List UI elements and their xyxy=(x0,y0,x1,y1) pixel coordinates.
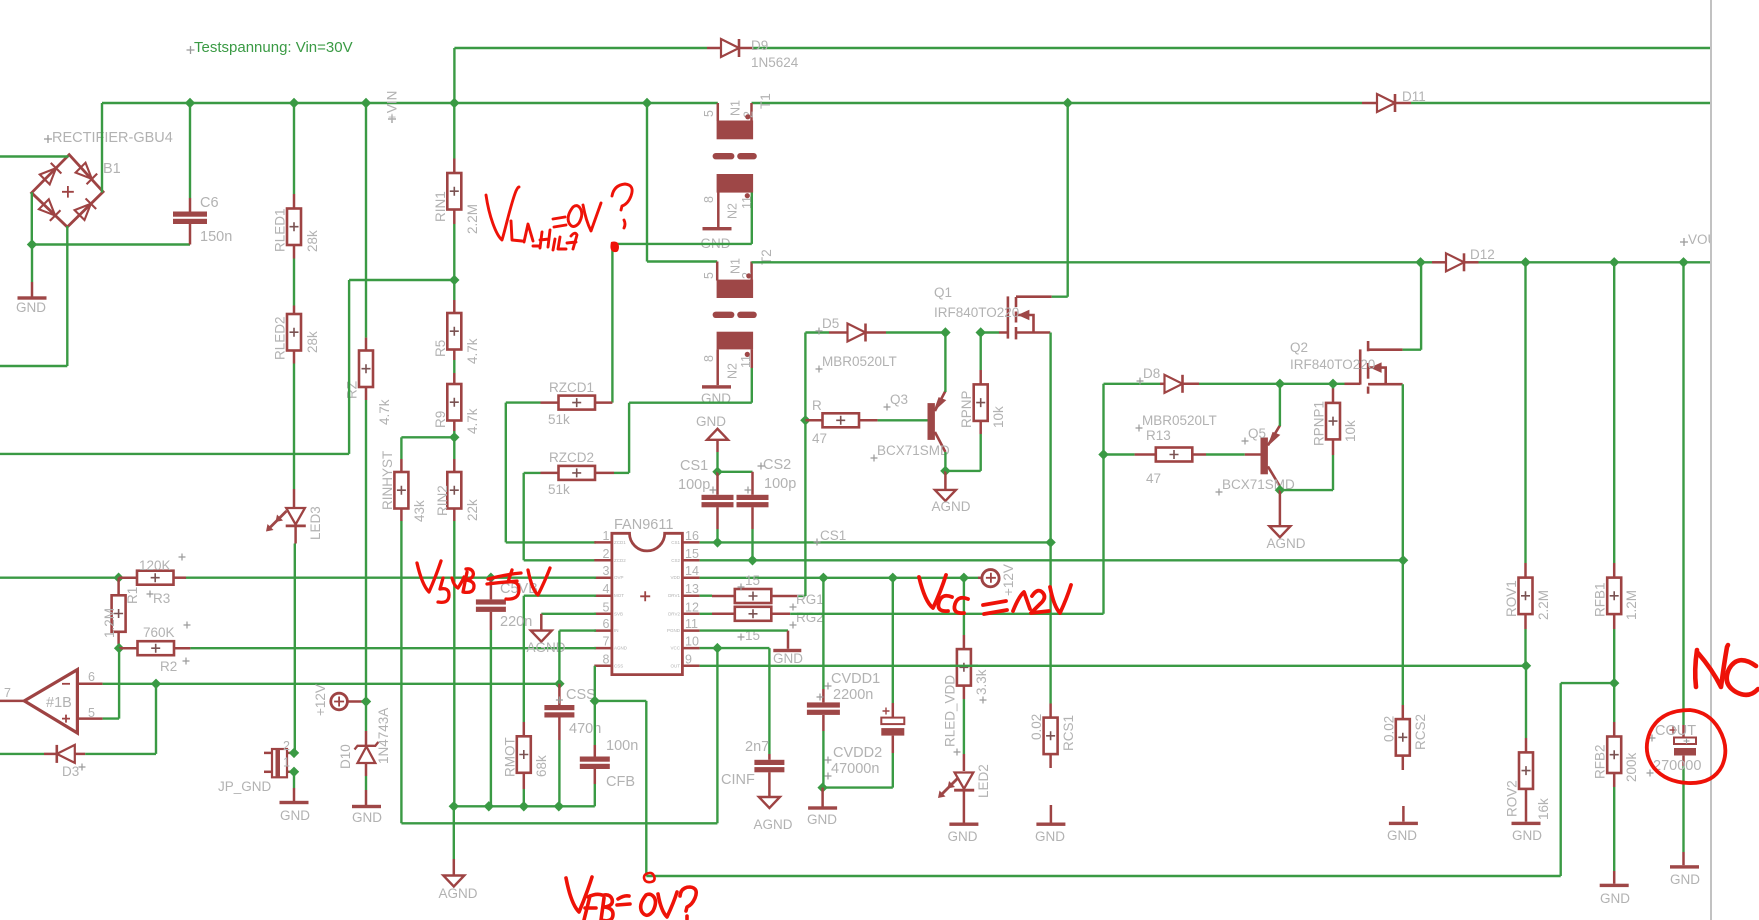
svg-text:1N4743A: 1N4743A xyxy=(376,708,391,764)
op-amp IC1B xyxy=(24,670,77,733)
svg-text:5: 5 xyxy=(702,272,716,279)
svg-text:D3: D3 xyxy=(62,764,79,779)
svg-text:R9: R9 xyxy=(433,411,448,428)
svg-text:ZCD2: ZCD2 xyxy=(614,558,626,563)
supply +12V vdd xyxy=(978,577,983,580)
svg-text:RMOT: RMOT xyxy=(502,737,517,777)
svg-text:AGND: AGND xyxy=(614,646,628,651)
resistor R5 4.7k xyxy=(453,280,455,300)
node CS cap top xyxy=(712,467,722,477)
svg-text:CINF: CINF xyxy=(721,772,755,788)
svg-text:15: 15 xyxy=(745,573,760,588)
svg-text:Q1: Q1 xyxy=(934,285,952,300)
node agnd bus c5vb xyxy=(484,801,494,811)
annotation Vcc12V xyxy=(919,575,1071,614)
svg-text:3.3k: 3.3k xyxy=(974,669,989,695)
svg-text:28k: 28k xyxy=(305,331,320,353)
wire bridge plus to rail xyxy=(101,103,103,193)
svg-text:D5: D5 xyxy=(822,316,839,331)
annotation VFB xyxy=(566,877,696,920)
diode D3 xyxy=(0,753,44,755)
svg-text:B1: B1 xyxy=(103,161,121,177)
wire Q3 emitter xyxy=(944,333,946,393)
svg-text:15: 15 xyxy=(685,547,699,561)
svg-text:Q5: Q5 xyxy=(1248,426,1266,441)
node RFB1 top xyxy=(1609,257,1619,267)
ground AGND pin5 xyxy=(531,631,552,642)
ground AGND main xyxy=(453,806,455,859)
svg-text:RPNP: RPNP xyxy=(959,390,974,428)
capacitor CFB 100n xyxy=(594,701,596,745)
wire agnd bus xyxy=(454,805,595,807)
resistor RCS1 0.02 xyxy=(1049,542,1051,560)
resistor ROV2 16k xyxy=(1525,666,1527,738)
node R gate1 xyxy=(800,415,810,425)
node VDD cvdd1 xyxy=(818,573,828,583)
svg-text:51k: 51k xyxy=(548,412,570,427)
svg-text:LED2: LED2 xyxy=(976,764,991,798)
pin 15 U1 xyxy=(682,559,699,562)
svg-text:RFB1: RFB1 xyxy=(1593,582,1608,617)
diode D9 xyxy=(707,47,722,50)
ic U1 FAN9611 body xyxy=(612,533,683,674)
svg-text:2.2M: 2.2M xyxy=(1536,590,1551,620)
svg-text:RZCD1: RZCD1 xyxy=(549,380,594,395)
svg-text:+12V: +12V xyxy=(1001,564,1016,596)
wire pin5 agnd xyxy=(541,613,596,615)
node RPNP top xyxy=(976,327,986,337)
resistor RFB2 200k xyxy=(1613,683,1615,722)
svg-text:N1: N1 xyxy=(729,258,743,274)
node VDD cvdd2 xyxy=(888,573,898,583)
node RPNP1 top xyxy=(1328,379,1338,389)
node VDD rled xyxy=(959,573,969,583)
svg-text:IRF840TO220: IRF840TO220 xyxy=(934,305,1019,320)
wire FB link xyxy=(1561,682,1615,684)
svg-text:150n: 150n xyxy=(200,229,232,245)
wire LED3 to JP_GND xyxy=(294,526,297,544)
diode D12 xyxy=(1432,261,1447,264)
wire pin3 R3 net xyxy=(0,577,130,579)
annotation NC xyxy=(1695,645,1758,695)
annotation V5VB xyxy=(417,561,550,602)
svg-text:LED3: LED3 xyxy=(308,506,323,540)
svg-text:AGND: AGND xyxy=(753,817,792,832)
node mid divider xyxy=(449,275,459,285)
svg-text:43k: 43k xyxy=(412,500,427,522)
wire riser D9 to VIN rail xyxy=(453,48,455,103)
wire AC input top xyxy=(0,155,69,157)
svg-text:47000n: 47000n xyxy=(831,761,879,777)
svg-text:120K: 120K xyxy=(139,558,171,573)
svg-text:200k: 200k xyxy=(1624,752,1639,782)
capacitor COUT 270000 xyxy=(1682,262,1684,725)
resistor RG2 15 xyxy=(700,613,712,615)
node +12V D10 xyxy=(361,696,371,706)
svg-text:0.02: 0.02 xyxy=(1029,714,1044,740)
svg-text:D9: D9 xyxy=(751,38,768,53)
svg-text:JP_GND: JP_GND xyxy=(218,779,272,794)
svg-text:RFB2: RFB2 xyxy=(1593,744,1608,779)
node RLED1 top xyxy=(289,98,299,108)
pin 12 U1 xyxy=(682,613,699,616)
svg-text:760K: 760K xyxy=(143,625,175,640)
svg-text:GND: GND xyxy=(1512,828,1542,843)
capacitor C6 150n xyxy=(189,103,191,198)
svg-text:220n: 220n xyxy=(500,614,532,630)
svg-text:R5: R5 xyxy=(433,340,448,357)
svg-text:22k: 22k xyxy=(465,499,480,521)
svg-text:1: 1 xyxy=(283,756,290,770)
transformer T2 core xyxy=(713,312,735,318)
svg-text:28k: 28k xyxy=(305,230,320,252)
svg-text:RLED_VDD: RLED_VDD xyxy=(942,675,957,747)
svg-text:GND: GND xyxy=(352,810,382,825)
svg-text:1.2M: 1.2M xyxy=(1624,590,1639,620)
ground GND D10 xyxy=(352,805,381,808)
svg-text:4.7k: 4.7k xyxy=(465,408,480,434)
svg-text:PGND: PGND xyxy=(667,628,681,633)
wire pin6 css riser xyxy=(559,629,596,631)
resistor R 47 xyxy=(805,419,822,422)
label +VIN xyxy=(388,115,396,123)
svg-text:R: R xyxy=(812,398,822,413)
node pin10 xyxy=(712,643,722,653)
svg-text:2: 2 xyxy=(283,739,290,753)
resistor RFB1 1.2M xyxy=(1613,262,1615,563)
wire D9 rail y48 xyxy=(454,47,707,49)
wire RZ to +12V node xyxy=(365,387,368,400)
svg-text:IRF840TO220: IRF840TO220 xyxy=(1290,357,1375,372)
wire RG2 gate2 net xyxy=(790,613,1103,615)
svg-text:COUT: COUT xyxy=(1655,723,1696,739)
resistor RLED2 28k xyxy=(293,245,296,259)
svg-text:8: 8 xyxy=(702,196,716,203)
svg-text:Testspannung: Vin=30V: Testspannung: Vin=30V xyxy=(194,39,353,56)
svg-text:GND: GND xyxy=(1387,828,1417,843)
svg-text:R1: R1 xyxy=(125,587,140,604)
node C6 top xyxy=(185,98,195,108)
ground AGND q3 xyxy=(944,471,947,490)
wire pin6 long net xyxy=(103,683,560,685)
resistor RLED_VDD 3.3k xyxy=(963,578,965,635)
wire pin15 CS2 net xyxy=(700,559,1404,561)
wire Q2 drain to VOUT xyxy=(1403,349,1422,351)
svg-text:1.2M: 1.2M xyxy=(102,608,117,638)
svg-text:100p: 100p xyxy=(678,477,710,493)
svg-text:N2: N2 xyxy=(726,363,740,379)
wire R1 to node648 xyxy=(117,632,120,644)
resistor RZCD2 51k xyxy=(559,466,596,480)
resistor RMOT 68k xyxy=(517,736,531,773)
svg-text:12: 12 xyxy=(685,600,699,614)
svg-text:1N5624: 1N5624 xyxy=(751,55,799,70)
node ROV mid xyxy=(1521,661,1531,671)
annotation circle COUT xyxy=(1647,710,1726,783)
resistor R1 1.2M xyxy=(117,578,120,596)
svg-text:RZCD2: RZCD2 xyxy=(549,450,594,465)
svg-text:CSS: CSS xyxy=(614,663,623,668)
svg-text:MBR0520LT: MBR0520LT xyxy=(1142,413,1217,428)
svg-text:ROV1: ROV1 xyxy=(1504,580,1519,617)
ground GND cvdd xyxy=(821,788,824,807)
svg-text:GND: GND xyxy=(280,808,310,823)
svg-text:MBR0520LT: MBR0520LT xyxy=(822,354,897,369)
svg-text:51k: 51k xyxy=(548,482,570,497)
pin 3 U1 xyxy=(594,576,612,579)
svg-text:VCC: VCC xyxy=(670,646,680,651)
node Q3 collector xyxy=(940,466,950,476)
annotation dot VL1 xyxy=(610,242,619,253)
svg-text:10k: 10k xyxy=(991,406,1006,428)
pin 6 U1 xyxy=(594,629,612,632)
svg-text:IN: IN xyxy=(614,628,619,633)
led LED2 xyxy=(963,686,966,699)
node RZ top xyxy=(361,98,371,108)
wire RINHYST to rail823 xyxy=(400,509,403,522)
wire D3 riser to pin6 net xyxy=(155,684,157,754)
svg-text:GND: GND xyxy=(1670,872,1700,887)
svg-text:CFB: CFB xyxy=(606,774,635,790)
wire pin14 VDD net xyxy=(700,577,978,579)
wire node437 to RINHYST xyxy=(401,436,454,438)
node divider ZCD xyxy=(449,432,459,442)
svg-text:3: 3 xyxy=(603,564,610,578)
node CS2 bottom xyxy=(747,555,757,565)
pin 2 U1 xyxy=(594,559,612,562)
annotation VL1Hilf xyxy=(486,184,632,250)
resistor R9 4.7k xyxy=(453,350,456,361)
diode D8 xyxy=(1104,383,1161,385)
svg-text:AGND: AGND xyxy=(931,499,970,514)
svg-text:RLED2: RLED2 xyxy=(273,316,288,360)
wire RZCD1 to pin1 xyxy=(505,403,507,543)
svg-text:4.7k: 4.7k xyxy=(377,399,392,425)
rectifier B1 bridge xyxy=(32,155,104,227)
svg-text:R3: R3 xyxy=(153,591,170,606)
svg-text:2: 2 xyxy=(603,547,610,561)
diode D11 xyxy=(1362,102,1377,105)
svg-text:OVP: OVP xyxy=(614,575,624,580)
resistor RLED1 28k xyxy=(293,103,295,194)
svg-text:68k: 68k xyxy=(534,755,549,777)
transistor Q2 IRF840TO220 xyxy=(1360,341,1402,394)
node cvdd gnd xyxy=(817,782,827,792)
pin 1 U1 xyxy=(594,541,612,544)
svg-text:+VIN: +VIN xyxy=(385,91,400,121)
svg-text:RZ: RZ xyxy=(345,381,360,399)
wire RZCD2 to pin2 xyxy=(523,473,525,560)
ground T2 pin8 xyxy=(716,349,719,385)
wire FB rail xyxy=(646,875,1560,877)
pin 11 U1 xyxy=(682,629,699,632)
transistor Q1 IRF840TO220 xyxy=(1008,296,1052,339)
svg-text:OUT: OUT xyxy=(671,663,681,668)
resistor RZ 4.7k xyxy=(365,103,367,338)
svg-text:VDD: VDD xyxy=(670,575,680,580)
wire RIN2 to agnd bus xyxy=(453,509,456,522)
resistor ROV1 2.2M xyxy=(1524,262,1526,563)
node CSS xyxy=(554,679,564,689)
svg-text:GND: GND xyxy=(807,812,837,827)
svg-text:RINHYST: RINHYST xyxy=(380,451,395,510)
svg-text:RLED1: RLED1 xyxy=(273,208,288,252)
node FB divider xyxy=(1609,678,1619,688)
svg-text:1: 1 xyxy=(603,529,610,543)
wire +VOUT rail xyxy=(752,261,1433,263)
capacitor C5VB 220n xyxy=(490,578,493,600)
svg-text:CS2: CS2 xyxy=(763,457,791,473)
svg-text:5: 5 xyxy=(603,600,610,614)
node agnd bus rin2 xyxy=(449,801,459,811)
svg-text:ZCD1: ZCD1 xyxy=(614,540,626,545)
node CS2 Q2 source xyxy=(1398,555,1408,565)
node Q5 emitter xyxy=(1275,379,1285,389)
capacitor CSS 470n xyxy=(558,684,561,705)
transistor Q3 BCX71SMD xyxy=(928,403,935,440)
resistor RIN2 22k xyxy=(453,437,455,459)
wire cvdd gnd link xyxy=(823,786,893,788)
diode D10 zener xyxy=(365,702,367,732)
wire pin9 overlay xyxy=(950,665,978,667)
ground GND rcs1 xyxy=(1049,754,1052,768)
svg-text:RCS1: RCS1 xyxy=(1061,715,1076,751)
wire T1 pin11 zcd1 xyxy=(751,193,753,244)
node bridge gnd junction xyxy=(27,239,37,249)
transformer T2 winding N2 xyxy=(717,332,754,350)
wire Q5 emitter xyxy=(1279,384,1281,426)
svg-text:DRV2: DRV2 xyxy=(668,611,680,616)
svg-text:C6: C6 xyxy=(200,195,219,211)
wire R2 to pin7 xyxy=(190,647,596,649)
svg-text:CS1: CS1 xyxy=(820,528,846,543)
svg-text:RIN1: RIN1 xyxy=(433,191,448,222)
transistor Q5 BCX71SMD xyxy=(1261,438,1268,475)
node D3 pin6 xyxy=(151,679,161,689)
svg-text:2n7: 2n7 xyxy=(745,739,769,755)
svg-text:13: 13 xyxy=(685,582,699,596)
wire gnd node horizontal xyxy=(32,243,190,245)
resistor RPNP 10k xyxy=(945,470,980,472)
node agnd bus rmot xyxy=(519,801,529,811)
pin 10 U1 xyxy=(682,647,699,650)
svg-text:7: 7 xyxy=(4,686,11,700)
svg-text:Q3: Q3 xyxy=(890,392,908,407)
pin 7 U1 xyxy=(594,647,612,650)
transformer T1 winding N2 xyxy=(717,174,754,193)
svg-text:47: 47 xyxy=(812,431,827,446)
svg-text:R13: R13 xyxy=(1146,428,1171,443)
ground GND pin11 xyxy=(700,629,788,631)
node Q5 collector xyxy=(1275,485,1285,495)
ground GND JP xyxy=(293,772,295,788)
wire pin10 net xyxy=(700,647,770,649)
svg-text:2200n: 2200n xyxy=(833,687,873,703)
wire Q3 collector xyxy=(944,452,946,471)
pin 4 U1 xyxy=(594,594,612,597)
node R13 gate2 xyxy=(1098,449,1108,459)
resistor RIN1 2.2M xyxy=(453,103,455,159)
ground GND rcs2 xyxy=(1402,806,1405,822)
svg-text:100n: 100n xyxy=(606,738,638,754)
svg-text:T1: T1 xyxy=(758,93,773,109)
node agnd bus css xyxy=(554,801,564,811)
node R2 left xyxy=(114,643,124,653)
svg-text:CVDD2: CVDD2 xyxy=(833,745,882,761)
wire FB riser from CFB xyxy=(595,700,647,702)
svg-text:RIN2: RIN2 xyxy=(435,485,450,516)
wire RMOT to agnd bus xyxy=(523,773,526,789)
svg-text:+12V: +12V xyxy=(313,684,328,716)
svg-text:8: 8 xyxy=(603,652,610,666)
svg-text:FAN9611: FAN9611 xyxy=(614,517,673,533)
capacitor CVDD2 47000n xyxy=(892,578,894,703)
resistor RG1 15 xyxy=(700,595,712,597)
svg-text:470n: 470n xyxy=(569,721,601,737)
wire T2 pin11 zcd2 xyxy=(751,349,754,368)
ground GND led2 xyxy=(963,791,966,823)
svg-text:GND: GND xyxy=(773,651,803,666)
ground GND cout xyxy=(1670,865,1699,868)
svg-text:4.7k: 4.7k xyxy=(465,338,480,364)
svg-text:AGND: AGND xyxy=(438,886,477,901)
resistor RINHYST 43k xyxy=(394,472,408,509)
svg-text:CS1: CS1 xyxy=(671,540,680,545)
transformer T1 winding N1 xyxy=(717,103,720,121)
svg-text:47: 47 xyxy=(1146,471,1161,486)
wire pin16 CS1 net xyxy=(700,541,1051,543)
svg-text:R2: R2 xyxy=(160,659,177,674)
wire Q1 source down xyxy=(1049,333,1051,543)
node FB CFB xyxy=(590,696,600,706)
ground GND bridge xyxy=(31,282,34,297)
svg-text:CVDD1: CVDD1 xyxy=(831,671,880,687)
wire pin8 to FB node xyxy=(594,666,596,701)
svg-text:5: 5 xyxy=(702,110,716,117)
transformer T2 winding N1 xyxy=(716,262,719,281)
wire rail y454 and riser xyxy=(0,453,349,455)
ground AGND q5 xyxy=(1279,490,1282,526)
resistor R3 120K xyxy=(119,576,137,579)
node R1 R3 xyxy=(113,573,123,583)
svg-text:14: 14 xyxy=(685,564,699,578)
ground T1 pin8 xyxy=(717,193,720,228)
svg-text:RCS2: RCS2 xyxy=(1413,714,1428,750)
pin 8 U1 xyxy=(594,665,612,668)
note Testspannung xyxy=(187,46,195,54)
svg-text:#1B: #1B xyxy=(46,695,72,711)
label RECTIFIER-GBU4 xyxy=(44,135,52,143)
svg-text:4: 4 xyxy=(603,582,610,596)
node Q1 source CS1 xyxy=(1045,537,1055,547)
svg-text:6: 6 xyxy=(603,617,610,631)
supply +12V left xyxy=(331,693,348,710)
svg-text:CS1: CS1 xyxy=(680,458,708,474)
wire gate1 to Q1 xyxy=(981,331,999,333)
wire gate1 riser xyxy=(804,333,806,597)
svg-text:2.2M: 2.2M xyxy=(465,204,480,234)
wire rail y823 xyxy=(401,822,717,824)
svg-text:0.02: 0.02 xyxy=(1381,716,1396,742)
node RIN1 top xyxy=(449,98,459,108)
resistor RPNP1 10k xyxy=(1280,489,1333,491)
svg-text:ROV2: ROV2 xyxy=(1505,780,1520,817)
wire RIN1 to node280 xyxy=(453,210,456,225)
svg-text:6: 6 xyxy=(88,670,95,684)
capacitor CVDD1 2200n xyxy=(822,578,824,689)
wire pin9 ovp net xyxy=(700,665,1526,667)
wire bridge left to gnd node xyxy=(31,192,33,244)
